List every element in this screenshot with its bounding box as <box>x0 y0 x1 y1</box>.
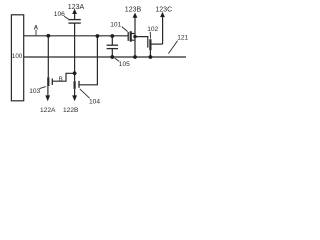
transistor 101 channel bar <box>130 31 132 42</box>
junction dot on line A at x=48 <box>46 34 50 38</box>
wire power supply line 121 <box>24 56 186 58</box>
transistor 103 gate bar <box>51 79 53 86</box>
junction dot on line A at x=97 <box>96 34 100 38</box>
svg-text:122A: 122A <box>40 107 56 114</box>
svg-text:123A: 123A <box>68 4 85 11</box>
svg-text:B: B <box>59 77 63 83</box>
junction dot node B <box>73 71 77 75</box>
wire 104 source to terminal 122B <box>74 89 76 96</box>
transistor 104 gate bar <box>78 81 80 88</box>
leader for node label A <box>35 30 37 35</box>
wire 123C terminal through transistor 102 to line 121 <box>162 17 164 44</box>
wire capacitor 106 lower lead to node B <box>74 23 76 73</box>
terminal arrow 123A <box>72 9 77 14</box>
terminal arrow 123B <box>133 13 138 18</box>
transistor 102 channel bar <box>149 39 151 50</box>
leader for label 102 <box>149 32 151 39</box>
junction dot capacitor 105 bottom <box>110 55 114 59</box>
svg-text:103: 103 <box>29 88 40 95</box>
junction dot 102 to line 121 <box>149 55 153 59</box>
capacitor 105 plates <box>107 44 118 46</box>
svg-text:A: A <box>34 25 39 31</box>
capacitor 106 plates <box>68 19 80 21</box>
wire transistor 102 source to line 121 <box>149 50 151 57</box>
wire 103 source to terminal 122A <box>47 86 49 96</box>
junction dot 101 to line 121 <box>133 55 137 59</box>
transistor 101 drain/source stubs <box>132 34 136 41</box>
wire node B to transistor 104 drain <box>74 73 76 81</box>
wire vertical to transistor 103 <box>47 36 49 78</box>
transistor 103 channel bar <box>47 77 49 86</box>
leader for label 101 <box>122 27 128 32</box>
transistor 102 drain/source stubs <box>151 43 163 45</box>
capacitor 106 top lead <box>74 14 76 19</box>
svg-text:121: 121 <box>177 35 188 42</box>
svg-text:104: 104 <box>89 99 100 106</box>
svg-text:105: 105 <box>119 61 130 68</box>
transistor 104 channel bar <box>73 81 75 89</box>
svg-text:101: 101 <box>110 21 121 28</box>
svg-text:102: 102 <box>147 26 158 33</box>
svg-text:123C: 123C <box>155 7 172 14</box>
capacitor 105 leads <box>111 36 113 45</box>
leader for label 106 <box>64 16 68 19</box>
driver block 100 <box>11 15 23 101</box>
terminal arrow 122A <box>45 95 50 101</box>
svg-text:100: 100 <box>12 53 23 60</box>
terminal arrow 122B <box>72 95 77 101</box>
wire 123B terminal through transistor 101 to line 121 <box>134 17 136 57</box>
junction dot 101 output node <box>133 35 136 38</box>
wire gate of 103 to node B <box>52 73 74 81</box>
terminal arrow 123C <box>160 12 165 17</box>
junction dot capacitor 105 top <box>110 34 114 38</box>
svg-text:122B: 122B <box>63 107 79 114</box>
leader for label 105 <box>115 58 120 61</box>
svg-text:106: 106 <box>54 11 65 18</box>
leader for label 121 <box>168 41 177 54</box>
leader for label 103 <box>40 87 46 89</box>
wire gate of 104 to line A <box>79 36 97 85</box>
leader for label 104 <box>80 89 90 98</box>
wire line A (scan line) <box>24 35 128 37</box>
svg-text:123B: 123B <box>125 7 142 14</box>
transistor 101 gate bar <box>127 32 129 41</box>
wire 101 output to gate of 102 <box>135 37 148 48</box>
